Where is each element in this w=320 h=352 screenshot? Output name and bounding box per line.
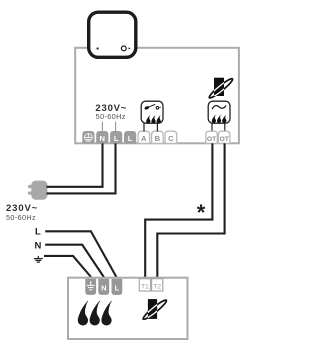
boiler box — [68, 278, 188, 339]
svg-text:OT: OT — [219, 136, 229, 143]
icon flames — [212, 114, 216, 123]
svg-text:A: A — [141, 134, 147, 143]
boiler flame 3 — [102, 301, 112, 325]
svg-text:OT: OT — [207, 136, 217, 143]
OpenTherm logo (boiler) — [142, 298, 168, 321]
boiler on/off icon box (above A B C) — [141, 101, 163, 123]
svg-text:T1: T1 — [141, 283, 149, 290]
svg-text:L: L — [128, 134, 133, 143]
tilde wave — [212, 106, 225, 109]
svg-text:50-60Hz: 50-60Hz — [96, 112, 126, 121]
switch contact circle — [156, 107, 159, 110]
terminal B — [152, 131, 164, 143]
svg-text:T2: T2 — [153, 283, 161, 290]
svg-text:50-60Hz: 50-60Hz — [6, 213, 36, 222]
terminal C — [165, 131, 177, 143]
switch arm — [147, 104, 155, 107]
svg-text:*: * — [197, 200, 206, 225]
svg-text:B: B — [155, 134, 161, 143]
wire earth (to boiler terminal PE) — [44, 256, 91, 277]
svg-text:N: N — [101, 283, 106, 292]
wire N (receiver to plug) — [47, 143, 103, 186]
wire OT1 (receiver to T1) — [145, 143, 212, 277]
leg from label to terminal L — [115, 122, 117, 133]
boiler terminal L — [112, 279, 123, 295]
wire L (to boiler terminal L) — [45, 231, 116, 277]
thermostat device — [89, 12, 136, 57]
boiler terminal T1 — [139, 279, 150, 291]
svg-text:L: L — [114, 134, 119, 143]
terminal L (receiver) — [110, 131, 122, 143]
svg-text:N: N — [35, 240, 42, 251]
switch contact blob — [144, 106, 149, 111]
switch tick — [159, 106, 160, 108]
svg-text:L: L — [35, 227, 41, 238]
boiler flame 2 — [90, 301, 100, 325]
device dot — [97, 47, 99, 49]
wire OT2 (receiver to T2) — [157, 143, 224, 277]
wire N (to boiler terminal N) — [45, 245, 104, 277]
terminal OT2 — [218, 131, 230, 143]
OpenTherm logo (receiver) — [208, 77, 234, 100]
earth symbol (boiler feed) — [34, 256, 43, 262]
mains plug — [28, 181, 47, 200]
terminal N (receiver) — [96, 131, 108, 143]
terminal L2 (receiver) — [124, 131, 136, 143]
receiver box — [75, 48, 239, 144]
terminal A — [138, 131, 150, 143]
icon flames — [146, 115, 150, 124]
leg from on/off icon to B — [156, 123, 158, 131]
svg-text:L: L — [115, 283, 120, 292]
boiler terminal PE (earth) — [85, 279, 96, 295]
wire L (receiver to plug) — [47, 143, 116, 193]
terminal OT1 — [206, 131, 218, 143]
leg from label to terminal N — [101, 122, 103, 133]
boiler terminal N — [98, 279, 109, 295]
leg from OT icon to OT2 — [224, 123, 226, 131]
terminal PE (receiver, earth) — [82, 131, 94, 143]
device arrow mark — [129, 47, 131, 49]
leg from OT icon to OT1 — [211, 123, 213, 131]
device button circle — [121, 46, 126, 51]
OpenTherm modulating icon box (above OT OT) — [208, 101, 230, 123]
leg from on/off icon to A — [143, 123, 145, 131]
svg-text:N: N — [100, 134, 105, 143]
boiler terminal T2 — [152, 279, 163, 291]
svg-text:C: C — [168, 134, 174, 143]
boiler flame 1 — [78, 301, 88, 325]
